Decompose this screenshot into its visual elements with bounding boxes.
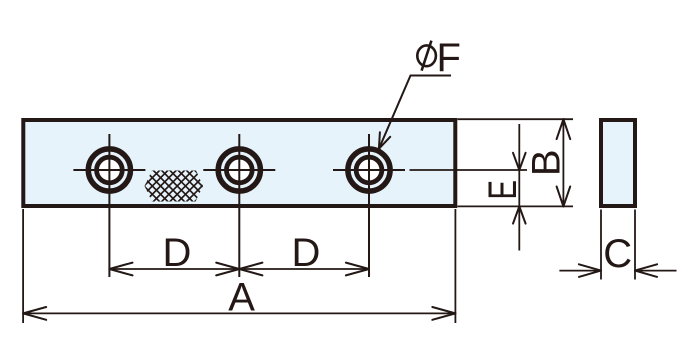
hole 2 counterbore circles xyxy=(218,149,260,191)
hole 2 center line crosshair xyxy=(203,134,275,277)
hole 3 center line crosshair xyxy=(333,134,405,277)
svg-text:D: D xyxy=(292,231,321,275)
extension line bottom edge right xyxy=(458,205,574,207)
dimension B line with arrows xyxy=(557,119,571,206)
knurled patch hatch pattern xyxy=(54,146,259,226)
extension line top edge right xyxy=(458,118,574,120)
svg-text:C: C xyxy=(603,232,632,276)
dimension D lines with arrows xyxy=(109,263,369,276)
plate front view body xyxy=(23,120,455,206)
svg-text:D: D xyxy=(163,231,192,275)
side view body xyxy=(601,120,635,206)
svg-text:B: B xyxy=(525,149,569,176)
dimension C with outside arrows xyxy=(559,264,676,277)
svg-text:F: F xyxy=(437,36,461,80)
svg-text:E: E xyxy=(481,180,525,200)
extension line A right xyxy=(454,209,456,323)
extension of hole center line to right xyxy=(410,169,528,171)
hole 1 counterbore circles xyxy=(88,149,130,191)
leader line for phi F xyxy=(379,76,451,149)
extension line A left xyxy=(22,209,24,323)
label phi F xyxy=(417,36,461,80)
dimension E line with outside arrows xyxy=(513,124,526,251)
hole 3 counterbore circles xyxy=(348,149,390,191)
dimension A line with arrows xyxy=(23,307,455,320)
svg-text:A: A xyxy=(228,275,255,319)
side view extension lines for C xyxy=(601,210,635,280)
hole 1 center line crosshair xyxy=(73,134,145,277)
